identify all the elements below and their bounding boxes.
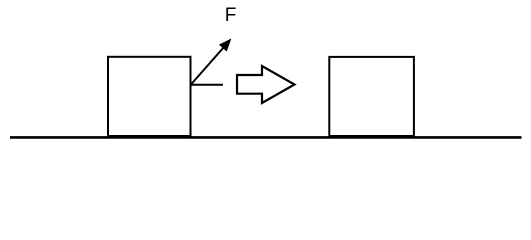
svg-text:F: F xyxy=(225,5,237,26)
block arrow (motion direction) xyxy=(237,66,295,103)
force arrow F shaft xyxy=(191,47,225,85)
ground line xyxy=(10,136,522,139)
horizontal reference line xyxy=(191,84,223,86)
force arrow F head xyxy=(220,40,231,51)
right block xyxy=(329,57,414,136)
left block xyxy=(108,57,191,136)
